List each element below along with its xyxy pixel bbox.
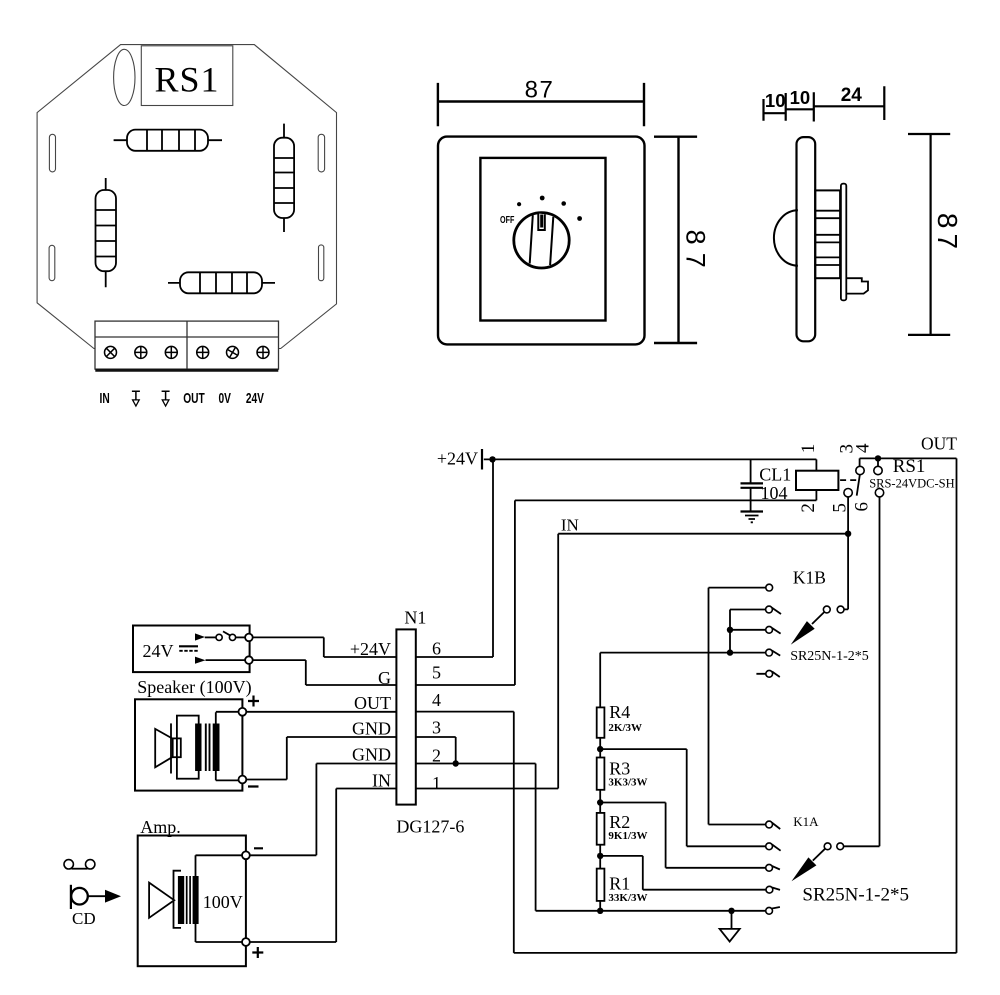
svg-text:G: G bbox=[378, 668, 391, 688]
svg-text:6: 6 bbox=[432, 639, 441, 659]
svg-text:10: 10 bbox=[765, 90, 786, 111]
svg-text:SRS-24VDC-SH: SRS-24VDC-SH bbox=[869, 477, 954, 491]
svg-text:3K3/3W: 3K3/3W bbox=[608, 777, 647, 789]
svg-text:N1: N1 bbox=[404, 608, 426, 628]
svg-text:+24V: +24V bbox=[350, 639, 391, 659]
svg-text:OUT: OUT bbox=[921, 434, 957, 454]
svg-text:CD: CD bbox=[72, 909, 96, 928]
svg-text:6: 6 bbox=[852, 502, 873, 512]
svg-text:2: 2 bbox=[432, 746, 441, 766]
svg-text:2K/3W: 2K/3W bbox=[608, 722, 642, 734]
svg-text:OUT: OUT bbox=[354, 693, 391, 713]
svg-text:24V: 24V bbox=[143, 641, 174, 661]
svg-text:24: 24 bbox=[841, 85, 863, 106]
svg-text:4: 4 bbox=[432, 690, 441, 710]
svg-text:R2: R2 bbox=[609, 812, 630, 832]
svg-text:R1: R1 bbox=[609, 874, 630, 894]
svg-text:87: 87 bbox=[525, 76, 555, 103]
svg-text:100V: 100V bbox=[203, 892, 243, 912]
svg-text:0V: 0V bbox=[218, 389, 231, 407]
svg-text:1: 1 bbox=[432, 773, 441, 793]
svg-text:IN: IN bbox=[561, 516, 579, 535]
svg-text:IN: IN bbox=[372, 770, 391, 790]
svg-text:5: 5 bbox=[432, 663, 441, 683]
svg-text:OFF: OFF bbox=[500, 214, 514, 225]
svg-text:33K/3W: 33K/3W bbox=[608, 892, 647, 904]
svg-text:Speaker (100V): Speaker (100V) bbox=[137, 677, 251, 698]
svg-text:2: 2 bbox=[798, 503, 819, 513]
svg-text:10: 10 bbox=[790, 87, 811, 108]
svg-text:4: 4 bbox=[852, 443, 873, 453]
svg-text:24V: 24V bbox=[246, 389, 264, 407]
svg-text:+24V: +24V bbox=[437, 449, 478, 469]
svg-text:GND: GND bbox=[352, 719, 391, 739]
svg-text:3: 3 bbox=[432, 718, 441, 738]
svg-text:Amp.: Amp. bbox=[140, 817, 181, 837]
svg-text:RS1: RS1 bbox=[893, 456, 926, 477]
svg-text:R3: R3 bbox=[609, 758, 630, 778]
svg-text:SR25N-1-2*5: SR25N-1-2*5 bbox=[790, 649, 869, 664]
svg-text:87: 87 bbox=[681, 230, 711, 276]
svg-text:9K1/3W: 9K1/3W bbox=[608, 830, 647, 842]
svg-text:GND: GND bbox=[352, 745, 391, 765]
svg-text:K1B: K1B bbox=[793, 568, 826, 588]
svg-text:87: 87 bbox=[932, 213, 963, 254]
svg-text:K1A: K1A bbox=[793, 814, 819, 829]
svg-text:DG127-6: DG127-6 bbox=[396, 817, 464, 837]
svg-text:CL1: CL1 bbox=[759, 465, 791, 485]
svg-text:SR25N-1-2*5: SR25N-1-2*5 bbox=[802, 885, 909, 906]
svg-text:OUT: OUT bbox=[183, 389, 205, 407]
svg-text:RS1: RS1 bbox=[154, 60, 219, 100]
svg-text:R4: R4 bbox=[609, 702, 630, 722]
svg-text:IN: IN bbox=[100, 389, 110, 407]
svg-text:1: 1 bbox=[798, 444, 819, 454]
